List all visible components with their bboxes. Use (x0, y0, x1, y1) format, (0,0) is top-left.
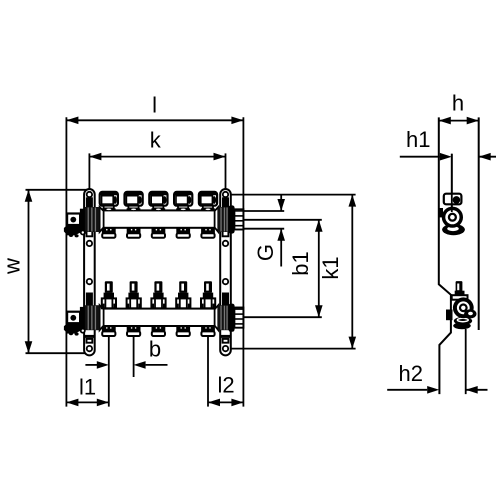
dimension G (244, 210, 284, 212)
top outlet 4 (176, 228, 190, 233)
flowmeter cap 3 (149, 192, 167, 206)
bottom outlet 2 (127, 326, 141, 331)
svg-text:l1: l1 (79, 375, 96, 400)
dimension k (88, 153, 90, 189)
return valve 3 (154, 281, 162, 293)
flowmeter cap 1 (100, 192, 118, 206)
bracket clamp marks R (222, 197, 229, 207)
bottom outlet 3 (152, 326, 166, 331)
dimension b (133, 336, 135, 377)
svg-text:l: l (152, 93, 157, 118)
bottom outlet 1 (102, 326, 116, 331)
flowmeter cap 4 (174, 192, 192, 206)
return valve 2 (130, 281, 138, 293)
bottom manifold left compression fitting (85, 305, 100, 330)
return valve 5 (204, 281, 212, 293)
dimension b1 (244, 219, 322, 221)
dimension h2 (387, 389, 427, 391)
dimension w (26, 189, 89, 191)
svg-text:b: b (149, 337, 161, 362)
mounting bracket R (220, 189, 231, 355)
bottom manifold vent valve (67, 312, 80, 324)
svg-text:k: k (150, 128, 162, 153)
top manifold vent valve (67, 214, 80, 226)
top manifold bar body (103, 210, 216, 227)
top outlet 3 (152, 228, 166, 233)
top outlet 2 (127, 228, 141, 233)
side view bottom fitting centerline (465, 329, 467, 394)
top manifold union nut (228, 205, 234, 233)
flowmeter cap 2 (125, 192, 143, 206)
dimension h (439, 120, 479, 122)
bottom outlet 5 (201, 326, 215, 331)
top manifold left compression fitting (85, 207, 100, 232)
dimension l1 (108, 336, 110, 407)
dimension l2 (207, 336, 209, 407)
bottom outlet 4 (176, 326, 190, 331)
top manifold right taper (215, 207, 219, 232)
top manifold male thread G (234, 209, 243, 229)
return valve 1 (105, 281, 113, 293)
svg-text:h1: h1 (406, 127, 430, 152)
dimension l (65, 117, 67, 406)
mounting bracket L (84, 189, 95, 355)
top outlet 1 (102, 228, 116, 233)
side view bracket profile front edge (439, 117, 451, 394)
svg-text:G: G (253, 244, 278, 261)
dimension h1 (400, 156, 440, 158)
side view bottom fitting (446, 310, 453, 321)
return valve 4 (179, 281, 187, 293)
bottom manifold union nut (228, 304, 234, 332)
bottom manifold bar body (103, 309, 216, 326)
bottom manifold male thread G (234, 308, 243, 328)
svg-text:b1: b1 (288, 251, 313, 275)
side view top fitting centerline (451, 154, 453, 219)
top outlet 5 (201, 228, 215, 233)
bottom manifold left taper (100, 305, 104, 330)
bottom manifold right compression fitting (218, 305, 229, 330)
svg-text:h2: h2 (399, 361, 423, 386)
svg-text:l2: l2 (217, 373, 234, 398)
svg-text:h: h (452, 90, 464, 115)
bottom manifold right taper (215, 305, 219, 330)
top manifold right compression fitting (218, 207, 229, 232)
svg-text:k1: k1 (318, 256, 343, 279)
flowmeter cap 5 (199, 192, 217, 206)
top manifold left taper (100, 207, 104, 232)
svg-text:w: w (0, 258, 25, 275)
dimension k1 (231, 194, 355, 196)
side view top fitting (439, 208, 443, 217)
bracket clamp marks L (86, 197, 93, 207)
side view wall line (478, 117, 480, 330)
